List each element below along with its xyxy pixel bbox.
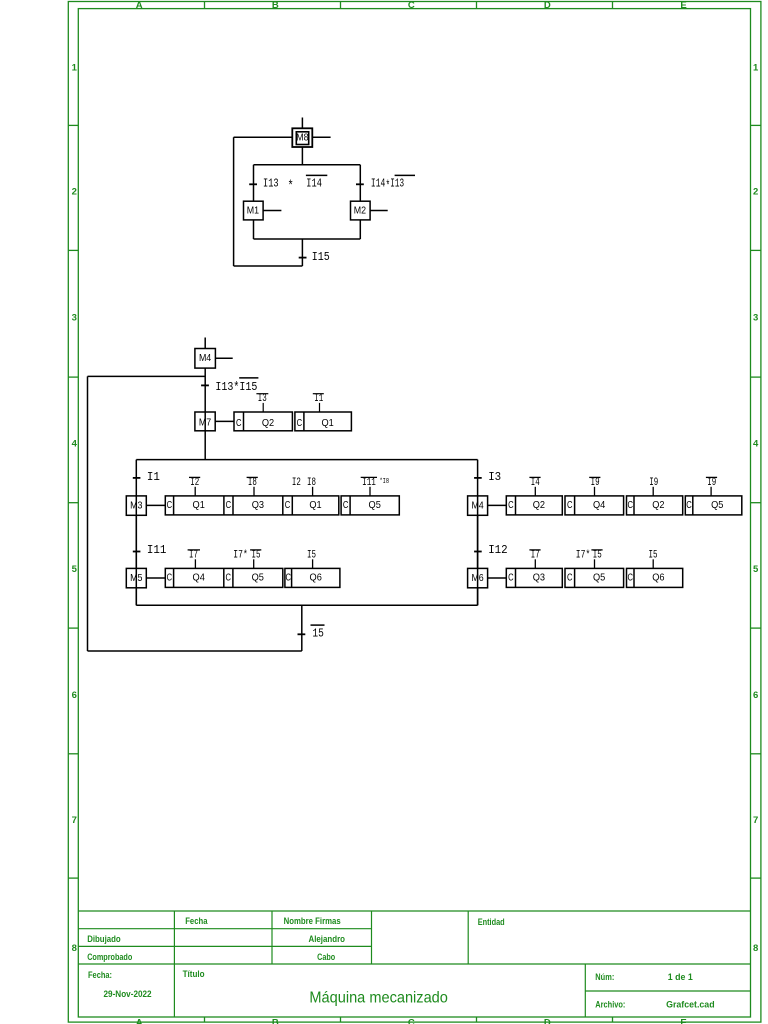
- svg-text:C: C: [408, 1018, 415, 1024]
- svg-text:B: B: [272, 0, 279, 11]
- svg-text:Núm:: Núm:: [595, 972, 614, 982]
- svg-text:C: C: [167, 500, 173, 511]
- svg-text:C: C: [236, 418, 242, 429]
- svg-text:*: *: [288, 179, 294, 194]
- svg-text:I14: I14: [306, 178, 322, 191]
- svg-text:C: C: [226, 500, 232, 511]
- svg-text:I15: I15: [312, 251, 330, 264]
- svg-text:2: 2: [72, 187, 77, 198]
- svg-text:I9: I9: [707, 477, 716, 489]
- svg-text:D: D: [544, 1018, 551, 1024]
- svg-text:1: 1: [753, 63, 759, 74]
- svg-text:I7*: I7*: [233, 550, 248, 562]
- svg-text:I5: I5: [252, 550, 261, 562]
- svg-text:Cabo: Cabo: [317, 952, 335, 962]
- svg-text:C: C: [343, 500, 349, 511]
- svg-text:Q3: Q3: [252, 500, 265, 511]
- svg-text:C: C: [567, 500, 573, 511]
- svg-text:1: 1: [72, 63, 78, 74]
- svg-text:Q1: Q1: [193, 500, 206, 511]
- svg-text:15: 15: [312, 628, 324, 641]
- svg-text:E: E: [680, 0, 686, 11]
- svg-text:Q2: Q2: [533, 500, 546, 511]
- svg-text:I12: I12: [488, 544, 508, 557]
- svg-text:C: C: [226, 573, 232, 584]
- svg-text:4: 4: [72, 439, 78, 450]
- svg-text:I2: I2: [292, 477, 301, 489]
- svg-text:C: C: [628, 573, 634, 584]
- svg-text:A: A: [136, 0, 143, 11]
- svg-text:I3: I3: [488, 471, 501, 484]
- svg-text:3: 3: [753, 313, 758, 324]
- svg-text:A: A: [136, 1018, 143, 1024]
- svg-text:Fecha:: Fecha:: [88, 970, 112, 980]
- svg-text:*I8: *I8: [380, 478, 390, 486]
- svg-text:3: 3: [72, 313, 77, 324]
- svg-text:7: 7: [72, 815, 77, 826]
- svg-text:I1: I1: [147, 471, 160, 484]
- svg-text:C: C: [167, 573, 173, 584]
- svg-text:Dibujado: Dibujado: [87, 934, 121, 944]
- svg-text:Q5: Q5: [369, 500, 382, 511]
- svg-text:I15: I15: [239, 381, 257, 394]
- svg-text:Grafcet.cad: Grafcet.cad: [666, 1000, 715, 1010]
- svg-text:Título: Título: [183, 969, 205, 979]
- svg-text:C: C: [686, 500, 692, 511]
- svg-text:M7: M7: [199, 417, 212, 428]
- svg-text:I13: I13: [215, 381, 233, 394]
- svg-text:Q5: Q5: [593, 573, 606, 584]
- svg-text:29-Nov-2022: 29-Nov-2022: [104, 989, 152, 999]
- svg-text:C: C: [508, 500, 514, 511]
- svg-text:C: C: [508, 573, 514, 584]
- svg-text:I13: I13: [263, 178, 279, 191]
- svg-text:6: 6: [72, 690, 77, 701]
- svg-text:Q5: Q5: [252, 573, 265, 584]
- svg-text:I8: I8: [307, 477, 316, 489]
- svg-text:Q6: Q6: [310, 573, 323, 584]
- svg-text:Q5: Q5: [711, 500, 724, 511]
- svg-text:I7*: I7*: [576, 550, 591, 562]
- svg-text:D: D: [544, 0, 551, 11]
- svg-text:Q4: Q4: [193, 573, 206, 584]
- svg-text:Nombre Firmas: Nombre Firmas: [284, 916, 341, 926]
- svg-text:Comprobado: Comprobado: [87, 952, 132, 962]
- svg-text:I11: I11: [147, 544, 167, 557]
- svg-text:Fecha: Fecha: [185, 916, 208, 926]
- svg-text:M8: M8: [296, 133, 309, 144]
- svg-text:8: 8: [72, 943, 77, 954]
- svg-text:C: C: [285, 573, 291, 584]
- svg-text:M4: M4: [471, 501, 484, 512]
- svg-text:M6: M6: [471, 573, 484, 584]
- svg-text:2: 2: [753, 187, 758, 198]
- svg-text:Alejandro: Alejandro: [309, 934, 346, 944]
- svg-text:C: C: [285, 500, 291, 511]
- svg-text:Q1: Q1: [309, 500, 322, 511]
- svg-text:M3: M3: [130, 501, 143, 512]
- svg-text:I8: I8: [248, 477, 257, 489]
- svg-text:Q4: Q4: [593, 500, 606, 511]
- svg-text:4: 4: [753, 439, 759, 450]
- svg-text:5: 5: [72, 564, 78, 575]
- svg-text:M2: M2: [354, 206, 367, 217]
- svg-text:Q3: Q3: [533, 573, 546, 584]
- svg-text:C: C: [567, 573, 573, 584]
- svg-text:I7: I7: [189, 550, 198, 562]
- svg-text:Entidad: Entidad: [478, 917, 505, 927]
- svg-text:I11: I11: [362, 477, 376, 489]
- svg-text:C: C: [297, 418, 303, 429]
- svg-text:I3: I3: [258, 393, 267, 405]
- svg-text:B: B: [272, 1018, 279, 1024]
- svg-text:Q2: Q2: [262, 418, 275, 429]
- svg-text:I13: I13: [390, 178, 404, 191]
- svg-text:C: C: [408, 0, 415, 11]
- svg-text:Archivo:: Archivo:: [595, 1000, 625, 1010]
- svg-text:Máquina mecanizado: Máquina mecanizado: [309, 989, 448, 1006]
- svg-text:I14: I14: [371, 178, 385, 191]
- svg-text:I1: I1: [314, 393, 323, 405]
- svg-text:C: C: [628, 500, 634, 511]
- svg-text:6: 6: [753, 690, 758, 701]
- svg-text:8: 8: [753, 943, 758, 954]
- svg-text:5: 5: [753, 564, 759, 575]
- svg-text:M5: M5: [130, 573, 143, 584]
- svg-text:7: 7: [753, 815, 758, 826]
- svg-text:M4: M4: [199, 353, 212, 364]
- svg-text:E: E: [680, 1018, 686, 1024]
- svg-text:Q1: Q1: [321, 418, 334, 429]
- svg-text:I5: I5: [307, 550, 316, 562]
- svg-text:Q2: Q2: [652, 500, 665, 511]
- svg-text:1 de 1: 1 de 1: [668, 972, 693, 982]
- svg-text:Q6: Q6: [652, 573, 665, 584]
- svg-text:M1: M1: [247, 206, 260, 217]
